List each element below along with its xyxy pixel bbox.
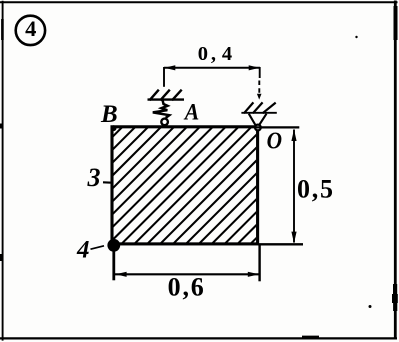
svg-text:0: 0 xyxy=(198,43,208,65)
svg-text:A: A xyxy=(183,100,199,125)
svg-text:3: 3 xyxy=(87,163,101,192)
svg-text:0,5: 0,5 xyxy=(297,175,335,204)
svg-text:,: , xyxy=(211,43,216,65)
svg-text:0,6: 0,6 xyxy=(168,273,206,302)
svg-text:4: 4 xyxy=(25,16,36,41)
svg-text:O: O xyxy=(267,127,282,153)
svg-text:4: 4 xyxy=(76,237,90,264)
svg-text:B: B xyxy=(100,101,118,128)
svg-text:4: 4 xyxy=(222,43,232,65)
